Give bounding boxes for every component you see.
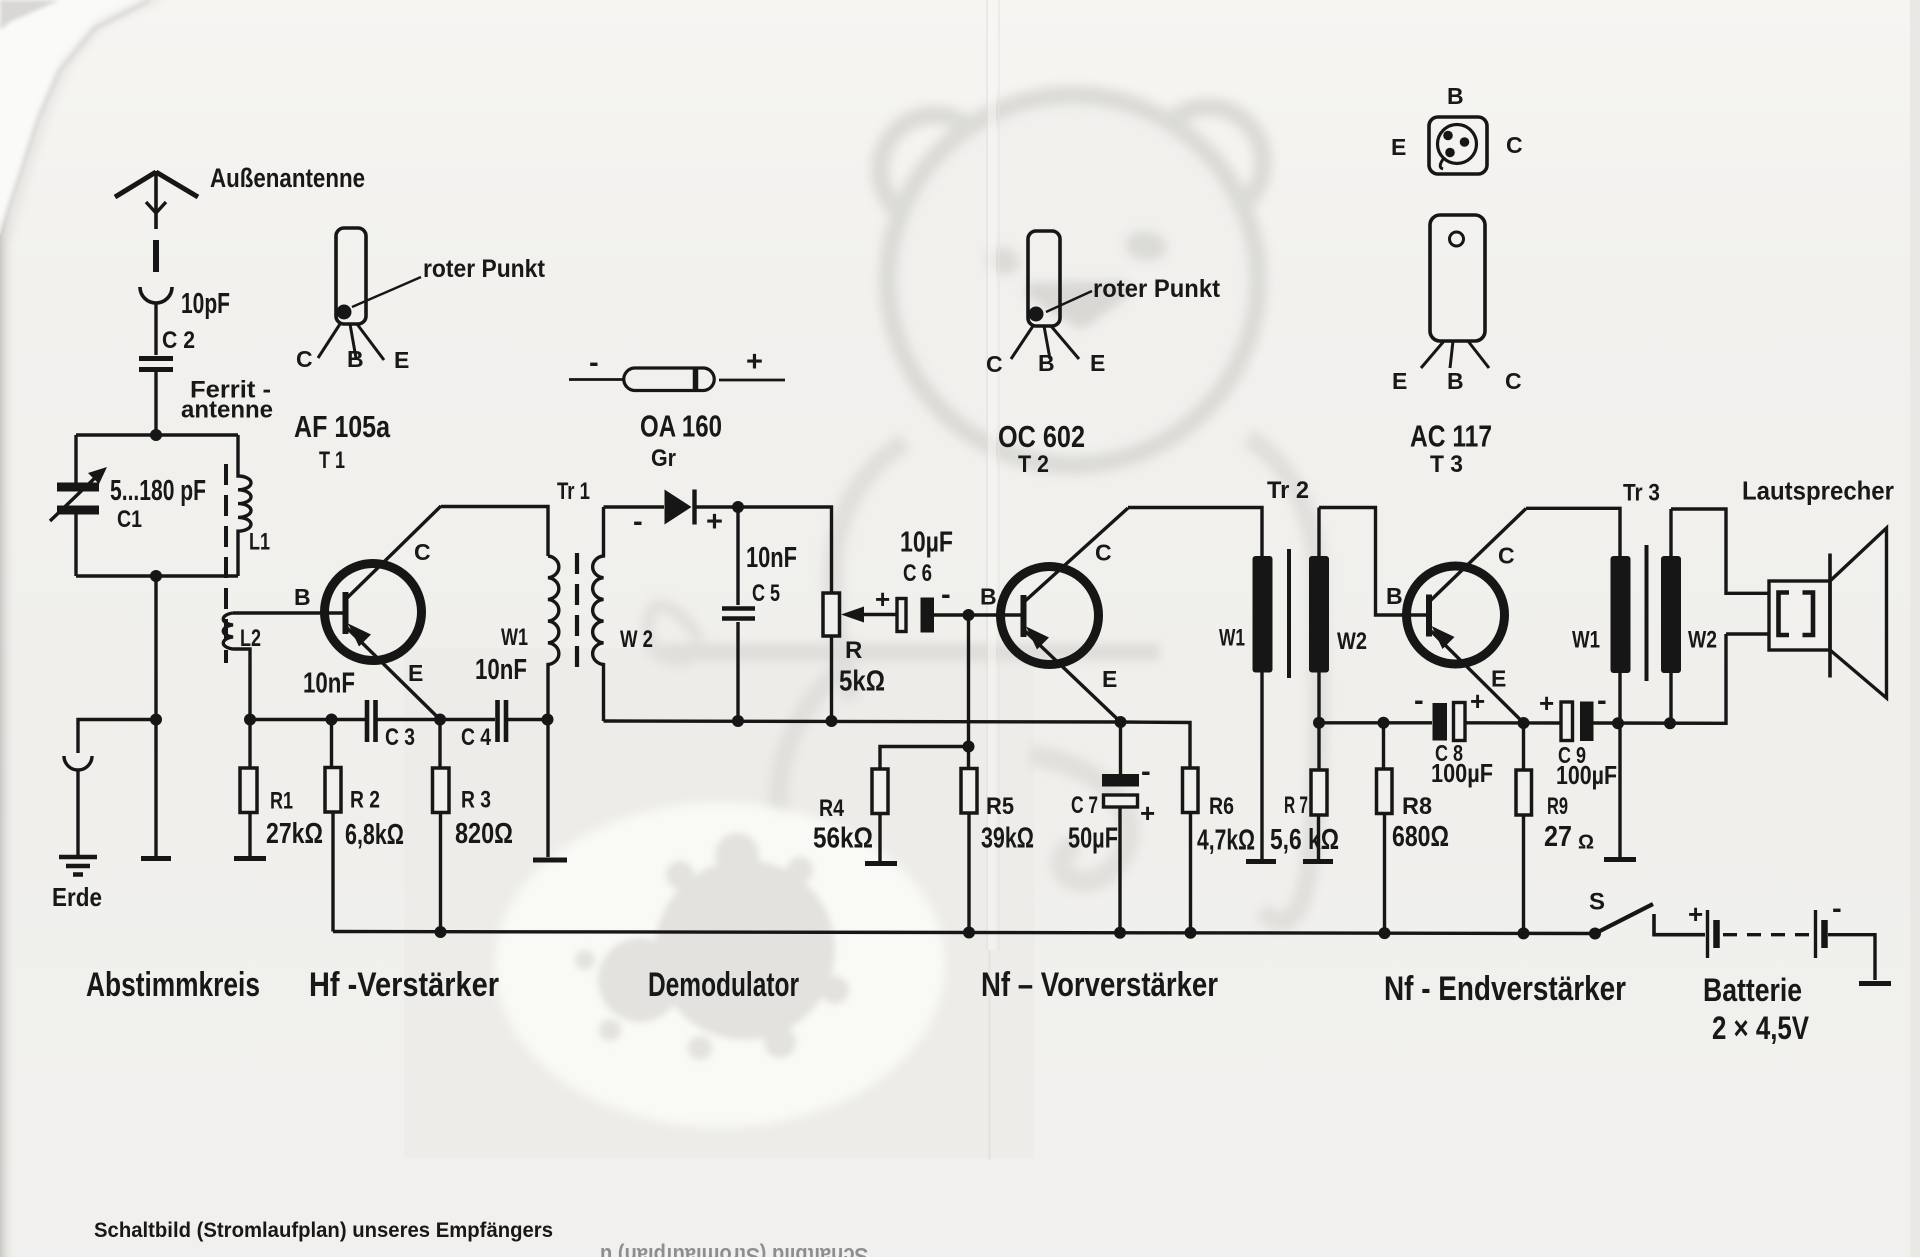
svg-text:+: +	[1688, 899, 1703, 929]
svg-text:5kΩ: 5kΩ	[839, 666, 885, 698]
svg-text:820Ω: 820Ω	[455, 818, 513, 850]
earth plug socket symbol	[64, 756, 92, 770]
resistor R6	[1183, 768, 1199, 933]
svg-text:C: C	[1506, 132, 1523, 158]
capacitor C3	[367, 700, 376, 742]
transistor package drawing OC602	[1011, 231, 1079, 359]
wire base T1	[233, 611, 343, 614]
node Tr3 W1 bottom junction	[1612, 717, 1624, 729]
svg-text:roter Punkt: roter Punkt	[423, 255, 546, 283]
svg-text:56kΩ: 56kΩ	[813, 823, 873, 855]
svg-text:R8: R8	[1402, 793, 1432, 820]
transformer Tr1 core dashed	[575, 553, 579, 673]
svg-text:B: B	[1447, 83, 1464, 109]
antenna Außenantenne	[115, 171, 198, 272]
svg-text:Erde: Erde	[52, 882, 102, 912]
svg-text:100µF: 100µF	[1431, 758, 1493, 788]
antenna plug socket symbol	[140, 287, 172, 303]
svg-text:AF 105a: AF 105a	[294, 409, 391, 444]
svg-text:10nF: 10nF	[303, 668, 355, 700]
transistor package drawing AF105a	[318, 228, 384, 360]
svg-text:5...180 pF: 5...180 pF	[110, 475, 206, 507]
svg-text:B: B	[1038, 350, 1055, 376]
battery bar terminal	[1859, 981, 1891, 986]
svg-text:T 1: T 1	[319, 447, 345, 474]
variable capacitor C1	[50, 467, 107, 521]
capacitor C6 electrolytic	[897, 598, 934, 633]
svg-text:W 2: W 2	[620, 626, 653, 653]
wire emitter node down to C7	[1119, 722, 1122, 774]
ground symbol Erde	[59, 857, 97, 875]
svg-text:27: 27	[1544, 821, 1572, 853]
svg-text:2 × 4,5V: 2 × 4,5V	[1712, 1010, 1810, 1046]
transformer Tr2 winding W2	[1309, 508, 1427, 723]
capacitor C2	[139, 359, 173, 370]
svg-text:4,7kΩ: 4,7kΩ	[1197, 825, 1255, 857]
fractal watermark	[495, 803, 945, 1127]
svg-text:W1: W1	[1572, 627, 1600, 654]
svg-text:R 3: R 3	[461, 787, 491, 814]
svg-text:E: E	[1090, 350, 1105, 376]
svg-text:Demodulator: Demodulator	[648, 966, 799, 1004]
switch S lever	[1595, 904, 1653, 934]
svg-text:E: E	[394, 347, 409, 373]
switch S hinge node	[1589, 928, 1601, 940]
svg-text:antenne: antenne	[181, 397, 273, 424]
svg-text:C: C	[414, 539, 431, 565]
svg-text:Tr 3: Tr 3	[1623, 480, 1660, 507]
diode package drawing OA160	[569, 368, 785, 391]
svg-text:Tr 1: Tr 1	[557, 478, 590, 505]
node emitter T1 junction	[434, 714, 446, 726]
pointer roter Punkt T1	[352, 277, 421, 307]
svg-text:-: -	[1141, 756, 1151, 788]
SCHEMATIC	[50, 171, 604, 933]
transistor T3	[1407, 509, 1527, 723]
svg-text:S: S	[1589, 889, 1605, 916]
svg-text:E: E	[408, 660, 423, 686]
supply bar terminal	[141, 856, 171, 861]
svg-text:R 2: R 2	[350, 787, 380, 814]
svg-text:Schaltbild (Stromlaufplan) uns: Schaltbild (Stromlaufplan) unseres Empfä…	[94, 1218, 553, 1242]
capacitor C9 electrolytic	[1561, 702, 1594, 742]
bear ear left	[880, 115, 990, 225]
battery dashed link	[1723, 933, 1810, 936]
wire output bus	[1319, 634, 1726, 723]
diode Gr	[665, 490, 695, 525]
svg-text:E: E	[1102, 666, 1117, 692]
svg-text:Schaltbild (Stromlaufplan) u: Schaltbild (Stromlaufplan) u	[600, 1243, 868, 1257]
bear body	[778, 438, 1319, 922]
svg-text:680Ω: 680Ω	[1392, 821, 1449, 853]
svg-text:10nF: 10nF	[475, 654, 527, 686]
wire tank bottom down	[154, 576, 157, 720]
wire T2 collector to Tr2 W1	[1128, 508, 1262, 557]
svg-text:-: -	[1414, 685, 1424, 717]
svg-text:B: B	[980, 584, 997, 610]
svg-text:39kΩ: 39kΩ	[981, 823, 1034, 855]
node C7 bottom	[1114, 927, 1126, 939]
resistor R8	[1377, 723, 1393, 933]
svg-text:-: -	[1597, 685, 1607, 717]
svg-text:-: -	[941, 579, 951, 611]
wire C5 branch	[736, 507, 739, 605]
svg-text:W1: W1	[501, 624, 528, 651]
resistor R5	[961, 747, 977, 933]
wire C2 to tank node	[154, 372, 157, 435]
node potentiometer bottom	[826, 715, 838, 727]
transistor T2	[1001, 508, 1129, 722]
node diode output	[732, 501, 744, 513]
wire hf bus	[250, 718, 548, 721]
transformer Tr3 winding W2	[1661, 509, 1769, 723]
transformer Tr3 winding W1	[1604, 556, 1636, 860]
svg-text:+: +	[1539, 688, 1554, 718]
svg-text:C 6: C 6	[903, 560, 932, 587]
resistor R1	[234, 720, 266, 859]
loudspeaker Lautsprecher	[1769, 528, 1887, 698]
capacitor C8 electrolytic	[1433, 703, 1466, 741]
svg-text:C: C	[1095, 540, 1112, 566]
svg-text:roter Punkt: roter Punkt	[1093, 275, 1221, 303]
node R6 bottom	[1185, 927, 1197, 939]
svg-text:27kΩ: 27kΩ	[266, 818, 323, 850]
svg-text:Nf – Vorverstärker: Nf – Vorverstärker	[981, 966, 1218, 1004]
svg-text:E: E	[1391, 134, 1406, 160]
svg-text:Außenantenne: Außenantenne	[210, 163, 365, 193]
svg-text:-: -	[589, 347, 599, 379]
potentiometer R 5k	[823, 593, 896, 721]
resistor R3	[433, 720, 450, 933]
node R3 bottom	[435, 926, 447, 938]
pointer roter Punkt T2	[1046, 291, 1092, 312]
transformer Tr1 winding W1	[548, 556, 559, 720]
svg-text:Tr 2: Tr 2	[1267, 477, 1309, 504]
node R8 top	[1378, 717, 1390, 729]
svg-text:W2: W2	[1688, 627, 1717, 654]
svg-text:C 4: C 4	[461, 724, 492, 751]
svg-text:+: +	[1140, 798, 1155, 828]
node base T2 branch	[963, 609, 975, 621]
battery right lead	[1828, 935, 1875, 980]
svg-text:10µF: 10µF	[900, 527, 953, 559]
node top of tank circuit	[150, 429, 162, 441]
svg-text:C 7: C 7	[1071, 792, 1098, 819]
svg-text:T 2: T 2	[1018, 451, 1049, 478]
wire demodulator bottom bus	[604, 721, 1121, 722]
svg-text:E: E	[1392, 368, 1407, 394]
wire T1 collector to Tr1	[441, 507, 548, 557]
wire speaker lower lead	[1726, 632, 1769, 635]
wire C6 to base T2	[934, 613, 1022, 616]
svg-text:W2: W2	[1337, 628, 1367, 655]
resistor R7	[1303, 723, 1333, 862]
svg-text:C 3: C 3	[385, 724, 415, 751]
node R4 junction	[963, 741, 975, 753]
svg-text:R: R	[845, 637, 862, 664]
resistor R4	[865, 769, 897, 864]
wire bottom supply bus	[333, 932, 1595, 934]
svg-text:R 7: R 7	[1284, 792, 1308, 819]
svg-text:Nf - Endverstärker: Nf - Endverstärker	[1384, 970, 1626, 1008]
node R8 bottom	[1379, 927, 1391, 939]
wire base branch down	[967, 615, 970, 747]
svg-text:+: +	[706, 506, 723, 538]
transformer Tr2 winding W1	[1246, 556, 1276, 862]
svg-text:AC 117: AC 117	[1410, 419, 1492, 454]
wire W1 bottom to supply bar	[546, 720, 549, 858]
node R5 bottom	[963, 927, 975, 939]
svg-text:Gr: Gr	[651, 445, 676, 472]
resistor R9	[1516, 723, 1532, 934]
wire to ground	[76, 771, 79, 855]
capacitor C4	[498, 700, 507, 742]
wire antenna to C2	[154, 303, 157, 355]
svg-text:50µF: 50µF	[1068, 823, 1118, 855]
supply bar terminal W1 Tr1	[533, 858, 567, 863]
bear ear right	[1153, 107, 1263, 217]
battery cell 1	[1706, 910, 1709, 958]
pinout diagram AC117	[1429, 117, 1487, 174]
wire to Erde	[78, 720, 156, 754]
node R2 top	[326, 714, 338, 726]
svg-text:+: +	[746, 346, 763, 378]
svg-text:OC 602: OC 602	[998, 419, 1085, 454]
wire R4 branch	[880, 747, 969, 770]
wire C5 to bus	[736, 622, 739, 721]
wire tank circuit box	[76, 435, 238, 576]
svg-text:W1: W1	[1219, 625, 1245, 652]
svg-text:100µF: 100µF	[1556, 760, 1617, 790]
svg-text:OA 160: OA 160	[640, 409, 722, 444]
svg-text:C: C	[296, 346, 313, 372]
svg-text:-: -	[633, 506, 643, 538]
transformer Tr3 core	[1645, 545, 1649, 681]
svg-text:R4: R4	[819, 795, 845, 822]
svg-text:B: B	[1386, 583, 1403, 609]
svg-text:R9: R9	[1547, 793, 1568, 820]
svg-text:10nF: 10nF	[746, 542, 797, 574]
svg-text:B: B	[1447, 368, 1464, 394]
svg-text:R6: R6	[1209, 793, 1234, 820]
battery left lead	[1654, 914, 1705, 935]
svg-text:5,6 kΩ: 5,6 kΩ	[1270, 824, 1339, 856]
node R9 bottom	[1518, 927, 1530, 939]
svg-text:C1: C1	[117, 506, 142, 533]
svg-text:R5: R5	[986, 793, 1014, 820]
svg-text:Lautsprecher: Lautsprecher	[1742, 476, 1894, 506]
node L2 on base bus	[244, 714, 256, 726]
bear eyes and muzzle	[983, 228, 1169, 320]
wire demodulator top	[604, 507, 832, 593]
node T3 emitter junction	[1518, 717, 1530, 729]
resistor R2	[325, 720, 341, 932]
node Tr2 W2 bottom	[1313, 717, 1325, 729]
bear arms	[648, 606, 1160, 882]
svg-text:C: C	[1505, 368, 1522, 394]
transistor package drawing AC117	[1421, 215, 1489, 368]
svg-text:C: C	[986, 351, 1003, 377]
svg-text:C 2: C 2	[162, 327, 195, 354]
svg-text:E: E	[1491, 666, 1506, 692]
svg-text:B: B	[347, 346, 364, 372]
svg-text:L2: L2	[240, 625, 261, 652]
node ground branch	[150, 714, 162, 726]
node C5 bottom	[732, 715, 744, 727]
svg-text:Ω: Ω	[1578, 832, 1594, 854]
node T2 emitter junction	[1115, 716, 1127, 728]
transistor T1	[325, 506, 442, 720]
svg-text:Batterie: Batterie	[1703, 972, 1802, 1008]
transformer Tr1 winding W2	[593, 507, 604, 721]
coil L2	[223, 613, 250, 720]
svg-text:Abstimmkreis: Abstimmkreis	[86, 966, 260, 1004]
svg-text:+: +	[1470, 686, 1485, 716]
svg-text:+: +	[875, 584, 890, 614]
svg-text:T 3: T 3	[1430, 451, 1463, 478]
svg-text:C 5: C 5	[752, 580, 780, 607]
svg-text:10pF: 10pF	[181, 288, 230, 320]
coil L1	[238, 435, 251, 576]
node bottom of tank	[150, 570, 162, 582]
svg-text:R1: R1	[270, 788, 293, 815]
svg-text:-: -	[1832, 893, 1842, 925]
svg-text:Hf -Verstärker: Hf -Verstärker	[309, 966, 499, 1004]
wire tank node down to supply bar	[154, 720, 157, 857]
transformer Tr2 core	[1287, 549, 1291, 678]
wire emitter node to R6	[1121, 722, 1191, 768]
svg-text:L1: L1	[249, 529, 270, 556]
capacitor C7 electrolytic	[1102, 774, 1139, 933]
node Tr3 W2 bottom junction	[1664, 717, 1676, 729]
svg-text:B: B	[294, 584, 311, 610]
svg-text:C: C	[1498, 543, 1515, 569]
bear head	[888, 95, 1258, 465]
svg-text:6,8kΩ: 6,8kΩ	[345, 819, 404, 851]
battery cell 2	[1814, 910, 1817, 958]
ferrite core dashed (L1/L2)	[224, 464, 228, 663]
node C4 W1 junction	[542, 714, 554, 726]
capacitor C5	[722, 609, 755, 619]
wire T3 collector to Tr3 W1	[1526, 508, 1620, 556]
